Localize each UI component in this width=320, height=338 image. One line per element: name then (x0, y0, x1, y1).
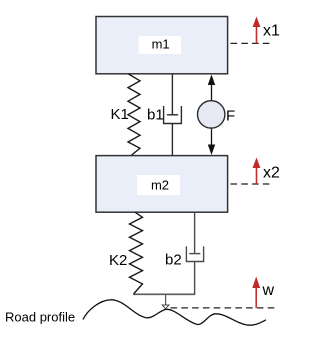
arrow x2 (256, 167, 258, 184)
svg-text:x2: x2 (263, 164, 280, 181)
arrow x1 (256, 26, 258, 43)
dashed datum line x1 (231, 42, 270, 44)
svg-text:w: w (262, 282, 275, 299)
svg-text:m2: m2 (151, 177, 169, 192)
spring K1 (128, 74, 140, 156)
dashed road datum line w (171, 307, 276, 309)
damper b1 (164, 74, 182, 156)
label m2 (137, 175, 180, 195)
bottom connecting bar (133, 293, 195, 295)
mass m2 (96, 156, 228, 213)
svg-text:F: F (226, 108, 235, 125)
junction stem to road (165, 294, 167, 304)
svg-text:Road profile: Road profile (5, 310, 75, 325)
damper b2 (186, 212, 203, 294)
dashed datum line x2 (231, 183, 270, 185)
svg-text:x1: x1 (263, 22, 280, 39)
spring K2 (130, 212, 143, 294)
arrow w (255, 287, 257, 308)
svg-text:m1: m1 (152, 37, 170, 52)
svg-text:b1: b1 (147, 107, 164, 124)
force source F (198, 75, 225, 156)
mass m1 (96, 17, 228, 74)
label m1 (139, 36, 182, 54)
contact triangle (162, 305, 169, 309)
svg-text:K1: K1 (111, 106, 129, 123)
svg-text:K2: K2 (109, 252, 127, 269)
svg-text:b2: b2 (165, 252, 182, 269)
road profile curve (83, 300, 266, 325)
